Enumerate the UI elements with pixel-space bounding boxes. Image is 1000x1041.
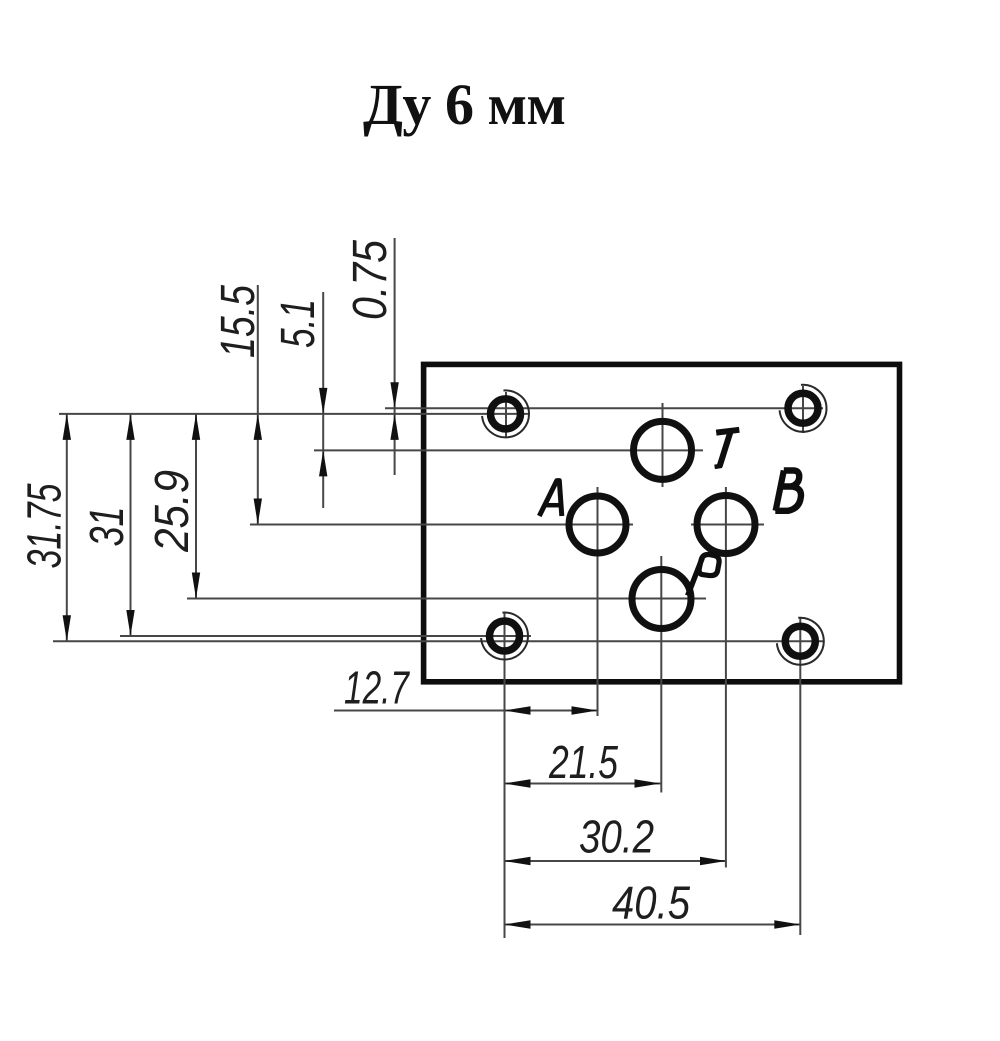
svg-text:25.9: 25.9 — [146, 470, 199, 553]
svg-text:31.75: 31.75 — [19, 483, 72, 568]
svg-text:12.7: 12.7 — [344, 662, 410, 714]
svg-text:5.1: 5.1 — [272, 299, 325, 348]
svg-text:31: 31 — [81, 507, 134, 547]
svg-text:0.75: 0.75 — [344, 240, 397, 320]
svg-text:21.5: 21.5 — [548, 736, 618, 788]
svg-text:40.5: 40.5 — [612, 877, 690, 929]
svg-text:30.2: 30.2 — [579, 811, 654, 863]
svg-text:Ду 6 мм: Ду 6 мм — [363, 72, 566, 137]
svg-text:15.5: 15.5 — [212, 285, 265, 358]
